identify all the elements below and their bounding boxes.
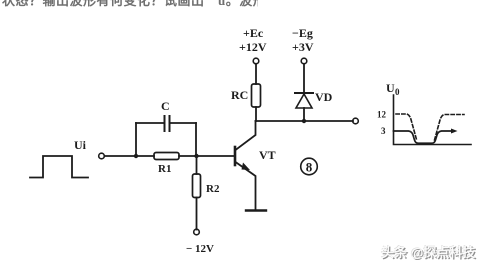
svg-text:R2: R2 <box>206 183 220 195</box>
wire -Eg to diode <box>303 64 305 93</box>
input square-wave symbol <box>30 156 88 178</box>
terminal -12V <box>194 229 200 235</box>
output waveform U0 axes <box>394 95 472 145</box>
svg-text:+Ec: +Ec <box>243 26 264 40</box>
clipped caption text at very top <box>2 0 258 7</box>
circled 8 <box>301 158 318 175</box>
emitter arrow <box>242 163 251 171</box>
terminal +Ec <box>253 58 259 64</box>
svg-text:−Eg: −Eg <box>292 26 313 40</box>
wire C-branch left vertical <box>135 123 137 156</box>
wire RC to output line <box>255 107 257 121</box>
wire R1 to node B <box>179 155 196 157</box>
svg-text:VT: VT <box>259 148 276 162</box>
svg-text:C: C <box>161 99 170 113</box>
waveform solid trace <box>394 131 453 143</box>
wire node B down to R2 <box>196 156 198 174</box>
svg-text:R1: R1 <box>158 163 171 175</box>
input terminal <box>99 153 105 159</box>
waveform dashed trace <box>396 114 464 140</box>
transistor VT emitter <box>236 162 256 210</box>
waveform solid arrow <box>451 129 458 134</box>
watermark <box>381 242 475 261</box>
svg-text:+3V: +3V <box>292 40 314 54</box>
svg-text:12: 12 <box>377 110 387 120</box>
svg-text:Ui: Ui <box>74 138 87 152</box>
svg-text:+12V: +12V <box>239 40 267 54</box>
diode VD <box>295 92 313 94</box>
wire C-branch top left <box>136 122 164 124</box>
wire +Ec to RC <box>255 64 257 84</box>
resistor RC <box>252 84 261 107</box>
svg-text:0: 0 <box>395 87 400 97</box>
output terminal <box>353 118 359 124</box>
node diode-output junction dot <box>302 119 306 123</box>
resistor R1 <box>154 153 179 160</box>
wire node B to base <box>196 155 234 157</box>
transistor VT base bar <box>234 147 237 165</box>
wire C-branch top right <box>170 122 196 124</box>
node A junction dot <box>134 154 138 158</box>
svg-text:3: 3 <box>381 126 386 136</box>
terminal -Eg <box>301 58 307 64</box>
svg-text:8: 8 <box>306 160 313 175</box>
wire R2 to -12V terminal <box>196 198 198 230</box>
capacitor C plates <box>164 116 166 131</box>
svg-text:− 12V: − 12V <box>186 243 214 255</box>
svg-text:VD: VD <box>315 90 333 104</box>
svg-text:U: U <box>386 81 395 95</box>
transistor VT collector <box>236 121 256 150</box>
svg-text:RC: RC <box>231 88 248 102</box>
resistor R2 <box>193 174 201 198</box>
node B junction dot <box>194 154 198 158</box>
output line <box>256 120 354 122</box>
wire C-branch right vertical <box>195 123 197 156</box>
ground <box>246 209 266 211</box>
wire input to node A <box>105 155 155 157</box>
